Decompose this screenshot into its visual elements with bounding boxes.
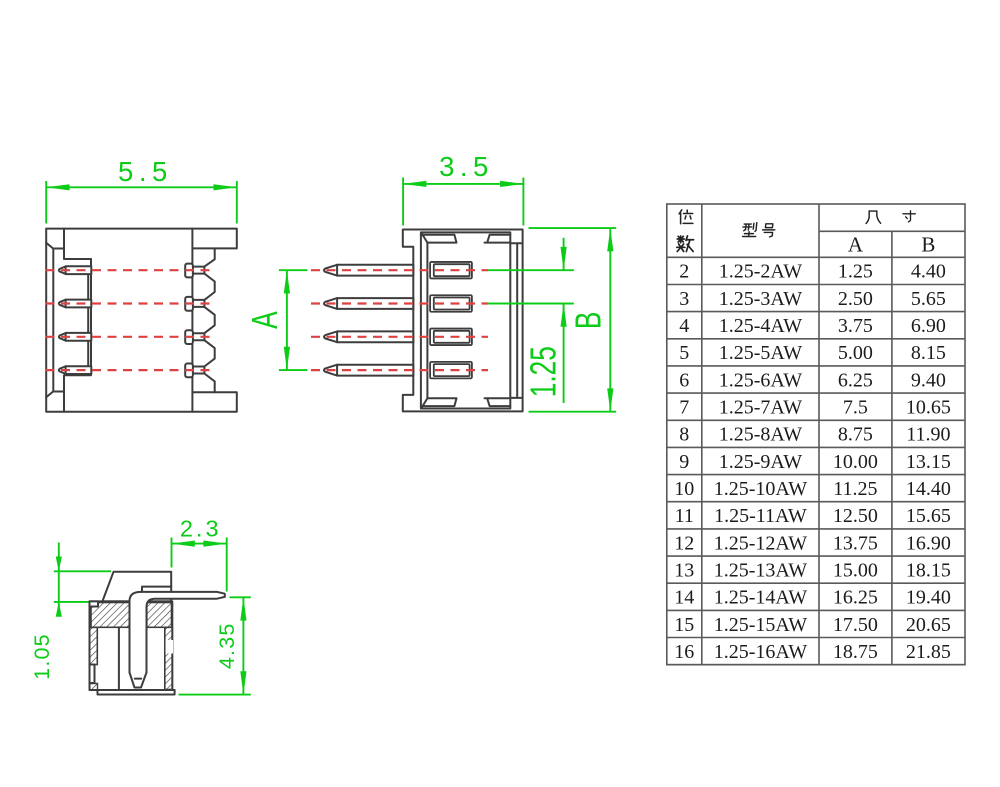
svg-text:10: 10 bbox=[674, 478, 694, 500]
svg-text:1.25-12AW: 1.25-12AW bbox=[714, 532, 808, 554]
svg-text:5: 5 bbox=[679, 342, 689, 364]
red centerline bbox=[46, 269, 212, 271]
inner cavity lines bbox=[421, 232, 510, 408]
svg-text:10.65: 10.65 bbox=[906, 397, 951, 419]
socket outer bbox=[430, 329, 472, 346]
dimension B extension lines bbox=[529, 228, 617, 412]
latch bump bbox=[185, 297, 193, 311]
arrowheads 1.25 bbox=[561, 247, 567, 327]
red centerline bbox=[311, 302, 488, 304]
svg-text:1.25-3AW: 1.25-3AW bbox=[719, 288, 803, 310]
top shelf chamfer left bbox=[421, 233, 456, 243]
svg-text:4.40: 4.40 bbox=[911, 261, 946, 283]
header char 寸 bbox=[903, 211, 915, 222]
svg-text:3.75: 3.75 bbox=[838, 315, 873, 337]
header char 号 bbox=[762, 224, 776, 237]
dimension A line bbox=[286, 270, 288, 370]
svg-text:1.25-14AW: 1.25-14AW bbox=[714, 587, 808, 609]
housing rear-view outline bbox=[46, 229, 237, 412]
socket outer bbox=[430, 362, 472, 379]
svg-text:1.25-10AW: 1.25-10AW bbox=[714, 478, 808, 500]
housing right body edge bbox=[191, 229, 193, 412]
cavity wall segment between pins bbox=[87, 341, 89, 367]
latch bump bbox=[185, 330, 193, 344]
pin shaft bbox=[324, 298, 413, 309]
dimension B line bbox=[609, 228, 611, 412]
dimension 1.05 extension lines bbox=[54, 571, 111, 602]
svg-text:5.5: 5.5 bbox=[118, 156, 173, 187]
svg-text:8.15: 8.15 bbox=[911, 342, 946, 364]
svg-text:B: B bbox=[567, 312, 608, 330]
red centerline bbox=[46, 336, 212, 338]
svg-text:12: 12 bbox=[674, 532, 694, 554]
dimension A extension lines bbox=[279, 270, 308, 370]
bottom shelf chamfer right bbox=[485, 398, 511, 406]
dimension 4.35 extension lines bbox=[179, 597, 251, 694]
svg-text:10.00: 10.00 bbox=[833, 451, 878, 473]
svg-text:14: 14 bbox=[674, 587, 694, 609]
svg-text:18.15: 18.15 bbox=[906, 559, 951, 581]
rear pin (bullet) bbox=[59, 300, 91, 308]
svg-text:9.40: 9.40 bbox=[911, 369, 946, 391]
rear pin (bullet) bbox=[59, 266, 91, 274]
housing side-view outline bbox=[403, 230, 523, 412]
svg-text:2.50: 2.50 bbox=[838, 288, 873, 310]
header char 尺 bbox=[866, 211, 881, 223]
arrowheads 1.05 bbox=[56, 557, 62, 617]
pin slot bbox=[193, 333, 205, 340]
pin slot bbox=[193, 367, 205, 374]
dimension 2.3 line bbox=[172, 543, 227, 545]
svg-text:14.40: 14.40 bbox=[906, 478, 951, 500]
dimension 1.05 line bbox=[58, 543, 60, 615]
pin shaft bbox=[324, 331, 413, 342]
cavity wall segment between pins bbox=[87, 274, 89, 300]
svg-text:3: 3 bbox=[679, 288, 689, 310]
bottom-left block bbox=[53, 392, 64, 412]
cavity divider bbox=[118, 627, 120, 690]
svg-text:6: 6 bbox=[679, 369, 689, 391]
svg-text:A: A bbox=[848, 233, 864, 257]
right latch zigzag edge bbox=[204, 248, 214, 392]
svg-text:13.75: 13.75 bbox=[833, 532, 878, 554]
arrowheads 3.5 bbox=[403, 181, 523, 187]
svg-text:20.65: 20.65 bbox=[906, 614, 951, 636]
svg-text:4.35: 4.35 bbox=[215, 622, 239, 669]
dimension 4.35 line bbox=[242, 597, 244, 694]
rear pin (bullet) bbox=[59, 333, 91, 341]
rear pin (bullet) bbox=[59, 366, 91, 374]
bottom shelf chamfer left bbox=[421, 398, 456, 408]
latch bump bbox=[185, 364, 193, 378]
dimension 1.25 extension lines bbox=[488, 270, 574, 303]
white notch left wall bbox=[90, 665, 95, 684]
header char 型 bbox=[742, 223, 757, 237]
svg-text:1.25: 1.25 bbox=[522, 346, 563, 397]
left wall inner line with chamfers bbox=[46, 243, 53, 397]
red centerline bbox=[311, 369, 488, 371]
pin shaft bbox=[324, 365, 413, 376]
tab bottom edges bbox=[192, 248, 214, 392]
right wall inner lines bbox=[510, 243, 522, 398]
svg-text:18.75: 18.75 bbox=[833, 641, 878, 663]
svg-text:11: 11 bbox=[675, 505, 694, 527]
red centerline bbox=[311, 269, 488, 271]
hatch top band right bbox=[147, 603, 172, 628]
socket outer bbox=[430, 295, 472, 312]
red centerline bbox=[46, 369, 212, 371]
svg-text:5.00: 5.00 bbox=[838, 342, 873, 364]
top shelf chamfer right bbox=[485, 235, 511, 243]
svg-text:1.25-13AW: 1.25-13AW bbox=[714, 559, 808, 581]
contact fold line bbox=[135, 678, 141, 680]
svg-text:1.25-5AW: 1.25-5AW bbox=[719, 342, 803, 364]
svg-text:13: 13 bbox=[674, 559, 694, 581]
svg-text:15.65: 15.65 bbox=[906, 505, 951, 527]
svg-text:5.65: 5.65 bbox=[911, 288, 946, 310]
cavity wall segment between pins bbox=[87, 307, 89, 333]
svg-text:1.25-16AW: 1.25-16AW bbox=[714, 641, 808, 663]
pcb base strip bbox=[98, 690, 175, 695]
comb top shelf bbox=[64, 249, 91, 267]
svg-text:1.25: 1.25 bbox=[838, 261, 873, 283]
dimension 1.25 line bbox=[563, 238, 565, 403]
socket inner bbox=[434, 364, 470, 376]
white gap right wall bbox=[166, 640, 174, 654]
body outline bbox=[90, 601, 173, 690]
socket inner bbox=[434, 298, 470, 310]
hatch left wall bbox=[90, 627, 98, 664]
svg-text:A: A bbox=[244, 311, 285, 329]
arrowheads A bbox=[284, 270, 290, 370]
socket inner bbox=[434, 331, 470, 343]
svg-text:6.25: 6.25 bbox=[838, 369, 873, 391]
header char 数 bbox=[677, 236, 694, 252]
svg-text:16.25: 16.25 bbox=[833, 587, 878, 609]
socket inner bbox=[434, 264, 470, 276]
hatch top band left bbox=[91, 603, 131, 628]
svg-text:6.90: 6.90 bbox=[911, 315, 946, 337]
arrowheads 4.35 bbox=[240, 597, 246, 694]
svg-text:2.3: 2.3 bbox=[180, 516, 222, 542]
svg-text:7.5: 7.5 bbox=[843, 397, 868, 419]
dimension 2.3 extension lines bbox=[172, 538, 227, 592]
header char 位 bbox=[679, 210, 693, 224]
lid step bbox=[142, 587, 171, 592]
pin slot bbox=[193, 267, 205, 274]
svg-text:1.05: 1.05 bbox=[30, 633, 54, 680]
socket outer bbox=[430, 262, 472, 279]
svg-text:12.50: 12.50 bbox=[833, 505, 878, 527]
svg-text:1.25-9AW: 1.25-9AW bbox=[719, 451, 803, 473]
svg-text:11.90: 11.90 bbox=[906, 424, 950, 446]
table grid bbox=[667, 204, 965, 665]
contact pin (bent) bbox=[130, 592, 225, 688]
arrowheads 5.5 bbox=[46, 184, 237, 190]
svg-text:1.25-4AW: 1.25-4AW bbox=[719, 315, 803, 337]
dimension 5.5 line bbox=[46, 186, 237, 188]
svg-text:16: 16 bbox=[674, 641, 694, 663]
dimension 5.5 extension lines bbox=[46, 181, 237, 224]
dimension 3.5 extension lines bbox=[403, 178, 523, 226]
red centerline bbox=[311, 336, 488, 338]
red centerline bbox=[46, 302, 212, 304]
pin slot bbox=[193, 300, 205, 307]
comb bottom shelf bbox=[64, 374, 91, 392]
svg-text:1.25-7AW: 1.25-7AW bbox=[719, 397, 803, 419]
svg-text:13.15: 13.15 bbox=[906, 451, 951, 473]
svg-text:1.25-11AW: 1.25-11AW bbox=[714, 505, 807, 527]
svg-text:1.25-2AW: 1.25-2AW bbox=[719, 261, 803, 283]
white notch top-left bbox=[90, 601, 99, 606]
hatch bottom-left corner bbox=[90, 684, 98, 691]
svg-text:1.25-15AW: 1.25-15AW bbox=[714, 614, 808, 636]
svg-text:17.50: 17.50 bbox=[833, 614, 878, 636]
svg-text:21.85: 21.85 bbox=[906, 641, 951, 663]
svg-text:1.25-6AW: 1.25-6AW bbox=[719, 369, 803, 391]
pin shaft bbox=[324, 265, 413, 276]
shelf front edge bbox=[426, 243, 428, 399]
arrowheads B bbox=[607, 228, 613, 412]
latch bump bbox=[185, 264, 193, 278]
top-left block bbox=[53, 229, 64, 249]
svg-text:8: 8 bbox=[679, 424, 689, 446]
svg-text:7: 7 bbox=[679, 397, 689, 419]
dimension 3.5 line bbox=[403, 183, 523, 185]
svg-text:19.40: 19.40 bbox=[906, 587, 951, 609]
hatch right wall bbox=[165, 627, 173, 689]
svg-text:3.5: 3.5 bbox=[439, 151, 494, 182]
svg-text:2: 2 bbox=[679, 261, 689, 283]
svg-text:4: 4 bbox=[679, 315, 689, 337]
svg-text:16.90: 16.90 bbox=[906, 532, 951, 554]
svg-text:15: 15 bbox=[674, 614, 694, 636]
svg-text:11.25: 11.25 bbox=[833, 478, 877, 500]
svg-text:8.75: 8.75 bbox=[838, 424, 873, 446]
svg-text:1.25-8AW: 1.25-8AW bbox=[719, 424, 803, 446]
arrowheads 2.3 bbox=[172, 541, 227, 547]
latch lid bbox=[102, 572, 171, 602]
svg-text:9: 9 bbox=[679, 451, 689, 473]
svg-text:15.00: 15.00 bbox=[833, 559, 878, 581]
svg-text:B: B bbox=[921, 233, 935, 257]
